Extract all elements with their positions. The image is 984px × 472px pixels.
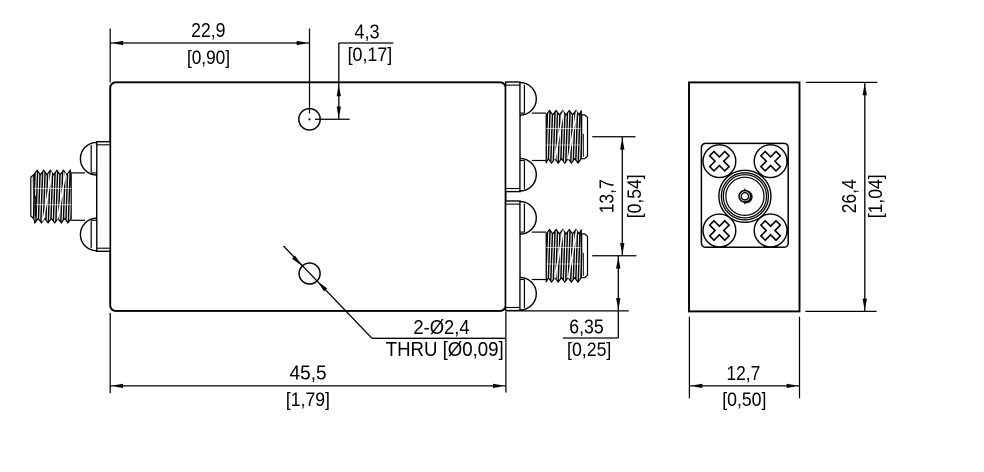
svg-text:13,7: 13,7 (596, 179, 618, 213)
body outline (end view) (689, 82, 800, 311)
svg-text:[0,90]: [0,90] (187, 48, 230, 69)
hole H1 centerlines (310, 29, 350, 120)
connector J3 threaded coupling (543, 229, 587, 283)
connector J1 flange ear top (80, 142, 96, 175)
svg-text:[0,17]: [0,17] (348, 45, 393, 66)
dimension 45,5 [1,79] (110, 312, 506, 411)
connector J3 mounting plate (506, 201, 520, 311)
svg-text:22,9: 22,9 (191, 20, 225, 42)
connector J1 mounting plate (97, 142, 111, 252)
screw S3 (703, 214, 736, 247)
connector J2 flange ear bottom (520, 158, 536, 191)
connector J1 threaded coupling (31, 170, 73, 224)
svg-text:[0,50]: [0,50] (722, 390, 766, 411)
hole H1 (299, 109, 320, 130)
svg-text:6,35: 6,35 (569, 317, 603, 339)
svg-text:THRU [Ø0,09]: THRU [Ø0,09] (386, 339, 504, 361)
connector J3 neck (520, 232, 546, 279)
body outline (side view) (110, 82, 505, 311)
dimension 13,7 [0,54] (592, 137, 646, 256)
screw S2 (754, 145, 787, 178)
connector J2 threaded coupling (543, 110, 587, 164)
leader callout 2-Ø2,4 THRU (284, 246, 506, 361)
screw S4 (754, 214, 787, 247)
connector J3 flange ear bottom (520, 277, 536, 310)
connector J1 neck (71, 173, 97, 220)
connector J3 flange ear top (520, 202, 536, 235)
connector J2 flange ear top (520, 83, 536, 116)
svg-text:45,5: 45,5 (290, 363, 327, 385)
svg-text:4,3: 4,3 (354, 21, 379, 43)
connector J2 mounting plate (506, 82, 520, 192)
connector flange (end view) (701, 143, 788, 247)
SMA center pin (end view) (739, 189, 752, 205)
connector J1 flange ear bottom (80, 218, 96, 251)
dimension 4,3 [0,17] (337, 21, 394, 119)
hole H2 (299, 263, 320, 284)
dimension 22,9 [0,90] (110, 20, 309, 82)
screw S1 (703, 145, 736, 178)
svg-text:[1,04]: [1,04] (866, 174, 887, 218)
svg-text:12,7: 12,7 (727, 363, 761, 385)
svg-text:[0,25]: [0,25] (567, 340, 611, 361)
svg-text:2-Ø2,4: 2-Ø2,4 (413, 317, 469, 339)
svg-text:[0,54]: [0,54] (625, 174, 646, 218)
SMA connector body circles (end view) (719, 170, 771, 222)
dimension 6,35 [0,25] (507, 256, 629, 361)
svg-text:[1,79]: [1,79] (286, 390, 330, 411)
svg-text:26,4: 26,4 (839, 179, 861, 213)
dimension 12,7 [0,50] (689, 317, 799, 412)
dimension 26,4 [1,04] (805, 82, 886, 311)
connector J2 neck (520, 113, 546, 160)
